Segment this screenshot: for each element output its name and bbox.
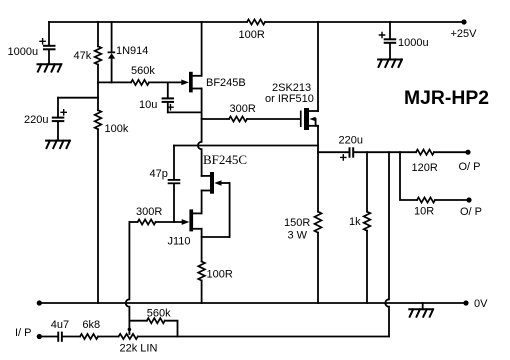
resistor 6k8 — [80, 334, 98, 339]
svg-text:BF245B: BF245B — [206, 77, 246, 89]
transistor Q2 J110 — [182, 219, 190, 225]
svg-text:1N914: 1N914 — [116, 45, 148, 57]
resistor 120R — [416, 150, 434, 155]
wire J110 source down — [201, 229, 203, 262]
svg-text:O/ P: O/ P — [459, 161, 481, 173]
resistor 1k — [366, 152, 368, 212]
svg-text:47p: 47p — [150, 168, 168, 180]
wire 300R to J110 gate — [156, 221, 182, 223]
resistor 100k — [97, 82, 99, 110]
resistor 10R — [417, 197, 435, 202]
svg-text:220u: 220u — [24, 114, 48, 126]
ground (below 1000u left) — [38, 64, 62, 71]
svg-text:3 W: 3 W — [288, 230, 308, 242]
wire 10u to BF245B source — [168, 111, 202, 113]
svg-text:220u: 220u — [339, 135, 363, 147]
wire 560k to feedback line — [165, 321, 178, 337]
wire to 300R upper — [202, 118, 229, 120]
node O/P terminal lower — [466, 197, 471, 202]
svg-text:22k LIN: 22k LIN — [120, 343, 158, 355]
svg-text:1k: 1k — [349, 216, 361, 228]
ground (below 1000u right) — [378, 60, 402, 67]
svg-text:300R: 300R — [136, 206, 162, 218]
svg-text:100R: 100R — [207, 269, 233, 281]
resistor 300R (upper) — [229, 116, 247, 121]
wire top +25V rail right section — [265, 21, 464, 23]
wire top +25V rail left section — [49, 21, 247, 23]
svg-text:BF245C: BF245C — [203, 152, 247, 167]
wire pot wiper feed down with hop over 0V rail — [126, 222, 130, 334]
transistor Q4 2SK213 / IRF510 MOSFET — [300, 111, 302, 128]
svg-text:6k8: 6k8 — [82, 319, 100, 331]
svg-text:47k: 47k — [74, 50, 92, 62]
wire bias node — [98, 81, 131, 83]
wire MOSFET source down to 150R — [317, 126, 319, 212]
wire input — [39, 336, 57, 338]
svg-text:10u: 10u — [139, 99, 157, 111]
ground (below 220u left) — [46, 141, 70, 148]
wire to BF245B gate — [149, 81, 182, 83]
wire 22k wiper up to 300R lower — [129, 221, 137, 223]
svg-text:100R: 100R — [239, 29, 265, 41]
resistor 150R 3W — [315, 212, 322, 233]
transistor Q1 BF245B — [181, 80, 189, 86]
svg-text:4u7: 4u7 — [51, 319, 69, 331]
capacitor 220u (output) — [318, 151, 349, 153]
capacitor 47p — [173, 146, 175, 180]
svg-text:120R: 120R — [412, 162, 438, 174]
capacitor 10u — [167, 82, 169, 97]
svg-text:560k: 560k — [147, 308, 171, 320]
wire 10R branch — [400, 152, 417, 200]
capacitor 1000u (right) — [389, 22, 391, 39]
svg-text:560k: 560k — [131, 65, 155, 77]
wire wiper to 560k lower — [129, 320, 146, 322]
resistor 560k (upper) — [131, 80, 149, 85]
ground (0V rail) — [422, 303, 424, 309]
wire feedback from output with hop over 0V rail — [385, 152, 389, 336]
wire BF245B source down with hop over output wire — [198, 89, 202, 176]
resistor 560k (lower, feedback) — [147, 318, 165, 323]
svg-text:J110: J110 — [168, 236, 191, 248]
node 0V terminal right — [463, 300, 468, 305]
svg-text:+25V: +25V — [451, 28, 478, 40]
svg-text:100k: 100k — [105, 123, 129, 135]
svg-text:MJR-HP2: MJR-HP2 — [404, 88, 489, 109]
wire pot to feedback corner — [138, 336, 389, 338]
wire 300R to MOSFET gate — [247, 118, 300, 120]
wire compensation node (47p to MOSFET source) — [174, 145, 318, 147]
wire 120R to O/P — [434, 151, 468, 153]
wire output node — [354, 151, 416, 153]
svg-text:or IRF510: or IRF510 — [265, 93, 314, 105]
svg-text:0V: 0V — [474, 298, 488, 310]
capacitor 1000u (left) — [48, 22, 50, 45]
resistor 100R (lower) — [198, 262, 205, 281]
svg-text:I/ P: I/ P — [15, 327, 32, 339]
transistor Q3 BF245C (cascode) — [202, 175, 210, 177]
svg-text:1000u: 1000u — [398, 37, 429, 49]
diode 1N914 — [111, 22, 113, 52]
capacitor 220u (left) — [58, 97, 98, 99]
resistor 47k — [97, 22, 99, 46]
capacitor 4u7 — [57, 332, 59, 342]
svg-text:150R: 150R — [284, 217, 310, 229]
resistor 100R (top rail) — [247, 19, 265, 24]
resistor 300R (lower) — [138, 219, 156, 224]
wire 4u7 to 6k8 — [63, 336, 80, 338]
node +25V terminal — [461, 19, 466, 24]
wire 6k8 to pot — [98, 336, 119, 338]
svg-text:10R: 10R — [414, 206, 434, 218]
node 0V terminal left — [37, 300, 42, 305]
wire 0V rail — [39, 302, 466, 304]
node I/P terminal — [37, 334, 42, 339]
svg-text:300R: 300R — [230, 103, 256, 115]
node wiper junction — [128, 328, 132, 332]
svg-text:O/ P: O/ P — [460, 206, 482, 218]
svg-text:1000u: 1000u — [8, 46, 39, 58]
wire 10R to O/P — [435, 199, 469, 201]
node O/P terminal upper — [465, 150, 470, 155]
potentiometer 22k LIN — [119, 334, 138, 339]
